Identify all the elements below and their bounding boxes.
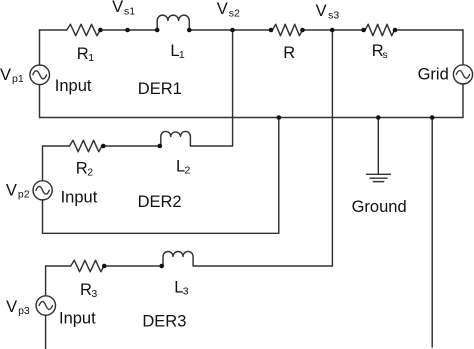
source V_p2 — [33, 181, 52, 200]
svg-text:V: V — [217, 0, 228, 18]
wire R1 to L1 (through V_s1 node) — [100, 29, 157, 31]
svg-text:s2: s2 — [229, 8, 240, 20]
svg-text:p3: p3 — [18, 305, 30, 317]
wire DER2 return vertical — [278, 118, 280, 234]
svg-text:V: V — [112, 0, 123, 16]
wire common rail — [40, 117, 464, 119]
wire V_s2 vertical — [232, 30, 234, 146]
svg-text:R: R — [77, 45, 89, 63]
wire R to Rs (through V_s3 node) — [303, 29, 364, 31]
svg-text:V: V — [0, 66, 11, 84]
wire R3 to L3 — [104, 265, 163, 267]
node dot R left — [269, 28, 274, 33]
node dot Rs left — [361, 28, 366, 33]
wire DER3 top-left — [46, 265, 71, 267]
wire top-left horizontal (source to R1) — [40, 29, 67, 31]
wire DER1 left vertical above source — [39, 30, 41, 65]
svg-text:R: R — [80, 281, 92, 299]
ground — [367, 174, 391, 181]
svg-text:s: s — [382, 49, 387, 61]
svg-text:p2: p2 — [18, 189, 30, 201]
node dot Rs right — [393, 28, 398, 33]
wire DER3 left vertical above source — [45, 266, 47, 296]
svg-text:Ground: Ground — [352, 198, 407, 216]
svg-text:DER2: DER2 — [138, 193, 182, 211]
wire L3 to V_s3 vertical — [193, 265, 332, 267]
svg-text:2: 2 — [185, 165, 191, 177]
svg-text:Input: Input — [55, 77, 92, 95]
wire R2 to L2 — [101, 145, 160, 147]
node dot R3 right — [102, 264, 107, 269]
inductor L2 — [161, 131, 191, 146]
svg-text:R: R — [76, 160, 88, 178]
svg-text:Grid: Grid — [418, 66, 449, 84]
svg-text:DER3: DER3 — [142, 312, 186, 330]
svg-text:V: V — [6, 298, 17, 316]
resistor R — [271, 24, 304, 35]
svg-text:1: 1 — [88, 52, 94, 64]
node dot right line on rail — [430, 115, 435, 120]
wire DER2 top-left — [43, 145, 70, 147]
inductor L1 — [157, 15, 189, 30]
node dot R right — [300, 28, 305, 33]
node dot L1 right — [187, 28, 192, 33]
resistor Rs — [364, 24, 396, 35]
node dot R2 right — [101, 144, 106, 149]
wire DER2 bottom return — [43, 232, 279, 234]
svg-text:p1: p1 — [12, 73, 24, 85]
svg-text:Input: Input — [61, 189, 98, 207]
svg-text:s1: s1 — [124, 6, 135, 18]
svg-text:V: V — [6, 181, 17, 199]
wire V_s3 vertical — [331, 30, 333, 266]
node dot L2 left — [158, 144, 163, 149]
wire grid right vertical below source — [462, 84, 464, 118]
node V_s1 dot — [125, 28, 130, 33]
source Grid — [453, 65, 472, 84]
resistor R3 — [71, 260, 104, 271]
wire Rs to grid corner — [395, 29, 463, 31]
node V_s2 dot — [230, 28, 235, 33]
wire DER2 left vertical above source — [42, 146, 44, 181]
svg-text:3: 3 — [91, 288, 97, 300]
source V_p1 — [30, 65, 50, 85]
inductor L3 — [163, 251, 193, 266]
node dot L3 left — [159, 264, 164, 269]
node V_s3 dot — [330, 28, 335, 33]
wire DER1 left vertical below source — [39, 85, 41, 118]
svg-text:s3: s3 — [328, 10, 339, 22]
node dot ground on rail — [376, 115, 381, 120]
svg-text:1: 1 — [179, 49, 185, 61]
wire ground stub — [377, 118, 379, 175]
svg-text:R: R — [283, 44, 295, 62]
svg-text:DER1: DER1 — [138, 80, 182, 98]
node dot R1 right — [98, 28, 103, 33]
wire L1 to R (through V_s2 node) — [189, 29, 271, 31]
resistor R1 — [67, 24, 100, 35]
svg-text:V: V — [316, 2, 327, 20]
wire right descending line — [431, 118, 433, 348]
node dot DER2 return on rail — [277, 115, 282, 120]
node dot L1 left — [155, 28, 160, 33]
source V_p3 — [36, 296, 55, 315]
wire DER2 left vertical below source — [42, 200, 44, 233]
wire grid right vertical above source — [462, 30, 464, 65]
resistor R2 — [70, 140, 102, 151]
wire L2 to V_s2 vertical — [190, 145, 232, 147]
svg-text:2: 2 — [87, 167, 93, 179]
svg-text:3: 3 — [183, 286, 189, 298]
wire DER3 left vertical below source — [45, 315, 47, 349]
svg-text:Input: Input — [59, 309, 96, 327]
